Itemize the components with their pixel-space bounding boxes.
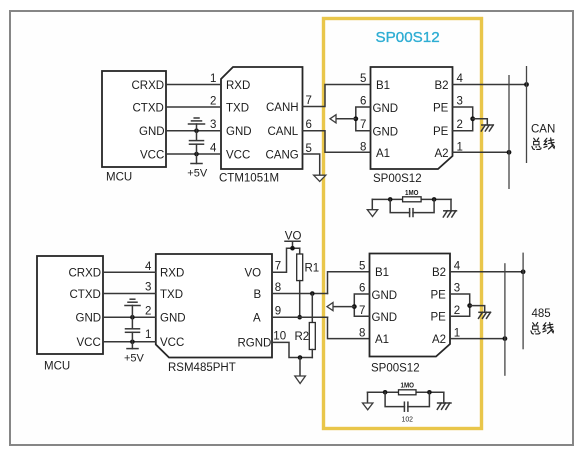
wire A to A1	[328, 317, 370, 338]
svg-text:PE: PE	[433, 102, 449, 114]
node GND bracket junction (bottom)	[352, 304, 357, 309]
+5V supply (bottom)	[124, 342, 145, 365]
wire CANH to B1	[303, 85, 371, 107]
svg-text:5: 5	[306, 143, 312, 155]
svg-text:3: 3	[145, 282, 151, 294]
wire PE3-PE2 bracket (top)	[453, 107, 473, 131]
chassis ground (top terminator)	[443, 199, 456, 217]
svg-text:TXD: TXD	[160, 289, 183, 301]
ground arrow (RGND)	[295, 376, 306, 384]
wire A row	[272, 316, 328, 318]
svg-text:+5V: +5V	[124, 353, 145, 365]
+5V supply (top)	[187, 154, 208, 180]
svg-text:VO: VO	[285, 230, 302, 242]
node R1-A junction	[297, 315, 302, 320]
svg-text:B2: B2	[432, 267, 446, 279]
svg-text:3: 3	[210, 119, 216, 131]
node RGND junction	[298, 355, 303, 360]
svg-text:VCC: VCC	[226, 150, 250, 162]
svg-text:SP00S12: SP00S12	[371, 363, 420, 375]
svg-text:1MO: 1MO	[401, 381, 415, 390]
wire to left arrow (bottom)	[333, 306, 354, 308]
MCU pin labels (bottom)	[69, 268, 102, 349]
wire CANG to ground	[303, 154, 320, 175]
svg-text:4: 4	[210, 143, 217, 155]
isolation barrier IC U: SP00S12 (top)	[371, 67, 453, 185]
svg-text:PE: PE	[431, 289, 447, 301]
svg-text:VCC: VCC	[77, 337, 101, 349]
wire CRXD to RXD	[166, 84, 221, 86]
svg-text:B2: B2	[435, 80, 449, 92]
svg-text:A2: A2	[435, 148, 449, 160]
node PE junction (bottom)	[467, 303, 472, 308]
svg-text:A2: A2	[432, 334, 446, 346]
wire PE3-PE2 bracket (bottom)	[450, 294, 470, 316]
wire PE to chassis ground (top)	[473, 119, 488, 125]
isolation barrier IC U: SP00S12 (bottom)	[370, 254, 451, 375]
CAN bus line 1	[508, 75, 510, 189]
node GND bracket junction (top)	[353, 116, 358, 121]
node A2-bus junction	[507, 150, 512, 155]
terminator resistor 1MO (bottom)	[363, 381, 444, 410]
svg-text:CTXD: CTXD	[70, 289, 101, 301]
terminator capacitor 102 (bottom)	[385, 392, 429, 423]
svg-text:10: 10	[273, 331, 286, 343]
node B2-bus junction (bottom)	[521, 269, 526, 274]
resistor R1	[297, 248, 320, 317]
MCU pin labels (top)	[132, 80, 165, 162]
svg-text:+5V: +5V	[187, 168, 208, 180]
svg-text:GND: GND	[226, 126, 252, 138]
ground arrow (CANG)	[314, 175, 326, 181]
svg-text:4: 4	[454, 261, 461, 273]
RS485 transceiver U: RSM485PHT	[156, 254, 272, 374]
wire VCC row	[166, 153, 221, 155]
terminator resistor 1MO (top)	[367, 188, 451, 217]
resistor R2	[295, 294, 316, 358]
highlight box around SP00S12 region	[324, 19, 482, 429]
485 bus line 1	[504, 263, 506, 376]
wire VO node	[272, 248, 300, 272]
left arrow symbol (top)	[330, 115, 336, 123]
svg-text:A: A	[253, 313, 261, 325]
svg-text:1: 1	[454, 327, 460, 339]
RSM485PHT pin labels	[160, 268, 271, 350]
svg-text:GND: GND	[372, 290, 398, 302]
svg-text:2: 2	[454, 305, 460, 317]
svg-text:SP00S12: SP00S12	[373, 173, 422, 185]
ground symbol above GND row	[189, 118, 205, 131]
node VCC junction (bottom)	[130, 340, 135, 345]
chassis ground (bottom PE)	[479, 312, 491, 318]
svg-text:R2: R2	[295, 331, 310, 343]
SP00S12 bottom pin numbers 4,3,2,1	[454, 261, 461, 340]
node VCC junction	[194, 152, 199, 157]
svg-text:CANG: CANG	[266, 150, 299, 162]
svg-text:RGND: RGND	[238, 337, 272, 349]
wire GND row	[166, 130, 221, 132]
svg-text:7: 7	[359, 305, 365, 317]
net label CAN 总线	[531, 124, 555, 150]
svg-text:2: 2	[210, 96, 216, 108]
svg-text:R1: R1	[305, 263, 320, 275]
net label 485 总线	[531, 308, 554, 334]
svg-text:B1: B1	[375, 267, 389, 279]
capacitor C (decoupling, bottom)	[126, 317, 140, 342]
svg-text:2: 2	[457, 119, 463, 131]
svg-text:VCC: VCC	[160, 337, 184, 349]
svg-text:TXD: TXD	[226, 103, 249, 115]
svg-text:6: 6	[360, 96, 366, 108]
svg-text:GND: GND	[160, 313, 186, 325]
wire CTXD to TXD	[166, 106, 221, 108]
left arrow symbol (bottom)	[327, 303, 333, 311]
node A2-bus junction (bottom)	[503, 336, 508, 341]
svg-text:MCU: MCU	[106, 172, 132, 184]
wire A2 to 485 bus	[450, 338, 505, 340]
svg-text:VO: VO	[245, 268, 262, 280]
SP00S12 top pin numbers 5-8	[360, 73, 366, 153]
SP00S12 top pin numbers 4,3,2,1	[457, 73, 464, 153]
svg-text:8: 8	[360, 141, 366, 153]
svg-text:VCC: VCC	[140, 150, 164, 162]
node GND junction (bottom)	[130, 315, 135, 320]
chassis ground (top PE)	[481, 125, 493, 131]
svg-text:4: 4	[145, 261, 152, 273]
wire CRXD to RXD (bottom)	[103, 271, 156, 273]
net label VO	[285, 230, 302, 242]
svg-text:7: 7	[275, 261, 281, 273]
SP00S12 bottom pin numbers 5-8	[359, 261, 365, 340]
svg-text:GND: GND	[76, 313, 102, 325]
svg-text:GND: GND	[373, 103, 399, 115]
svg-text:CTXD: CTXD	[133, 103, 164, 115]
wire GND row (bottom)	[103, 316, 156, 318]
wire CANL to A1	[303, 131, 371, 153]
RSM485PHT pin numbers 4,3,2,1	[145, 261, 152, 341]
SP00S12 bottom pin labels	[372, 267, 447, 346]
SP00S12 top pin labels	[373, 80, 449, 160]
svg-text:RXD: RXD	[160, 268, 184, 280]
wire CTXD to TXD (bottom)	[103, 293, 156, 295]
MCU block (top)	[102, 71, 166, 184]
svg-text:485: 485	[532, 308, 551, 320]
wire ground stub (RGND)	[299, 358, 301, 377]
svg-text:1: 1	[210, 73, 216, 85]
svg-text:CANH: CANH	[266, 102, 299, 114]
svg-text:CRXD: CRXD	[69, 268, 102, 280]
wire to left arrow (top)	[336, 118, 356, 120]
RSM485PHT pin numbers 7,8,9,10	[273, 261, 286, 343]
svg-text:PE: PE	[433, 126, 449, 138]
svg-text:B1: B1	[376, 80, 390, 92]
svg-text:7: 7	[360, 119, 366, 131]
svg-text:3: 3	[454, 283, 460, 295]
svg-text:B: B	[254, 289, 262, 301]
node GND junction	[194, 128, 199, 133]
wire A2 to CAN bus	[453, 151, 510, 153]
svg-text:RXD: RXD	[226, 80, 250, 92]
svg-text:1: 1	[145, 329, 151, 341]
svg-text:CTM1051M: CTM1051M	[219, 173, 279, 185]
svg-text:5: 5	[359, 261, 365, 273]
svg-text:6: 6	[306, 119, 312, 131]
wire B row	[272, 293, 328, 295]
svg-text:RSM485PHT: RSM485PHT	[168, 362, 236, 374]
CAN bus line 2	[526, 66, 528, 163]
wire B to B1	[328, 272, 370, 294]
CAN transceiver U: CTM1051M	[219, 67, 303, 185]
svg-text:GND: GND	[139, 126, 165, 138]
wire GND6-GND7 bracket (bottom)	[354, 294, 369, 316]
svg-text:4: 4	[457, 73, 464, 85]
capacitor C (decoupling, top)	[190, 131, 204, 154]
svg-text:7: 7	[306, 95, 312, 107]
wire GND6-GND7 bracket (top)	[356, 107, 371, 131]
svg-text:CANL: CANL	[268, 126, 299, 138]
wire PE to chassis ground (bottom)	[470, 306, 485, 313]
node B-R2 junction	[310, 291, 315, 296]
node B2-bus junction	[524, 82, 529, 87]
svg-text:5: 5	[360, 73, 366, 85]
terminator capacitor (top)	[390, 199, 434, 216]
wire B2 to 485 bus	[450, 271, 523, 273]
svg-text:8: 8	[359, 327, 365, 339]
svg-text:2: 2	[145, 306, 151, 318]
svg-text:A1: A1	[376, 148, 390, 160]
svg-text:A1: A1	[375, 334, 389, 346]
wire B2 to CAN bus	[453, 84, 527, 86]
485 bus line 2	[522, 253, 524, 350]
svg-text:MCU: MCU	[44, 361, 70, 373]
CTM1051M pin numbers 7,6,5	[306, 95, 312, 155]
svg-text:CRXD: CRXD	[132, 80, 165, 92]
svg-text:102: 102	[402, 415, 414, 424]
CTM1051M pin labels	[226, 80, 299, 162]
svg-text:PE: PE	[431, 312, 447, 324]
CTM1051M pin numbers 1-4	[210, 73, 217, 155]
ground symbol above GND row (bottom)	[125, 299, 140, 317]
svg-text:1: 1	[457, 141, 463, 153]
svg-text:SP00S12: SP00S12	[376, 29, 440, 46]
svg-text:3: 3	[457, 96, 463, 108]
wire VCC row (bottom)	[103, 341, 156, 343]
svg-text:GND: GND	[372, 312, 398, 324]
wire RGND to ground	[272, 342, 312, 357]
chassis ground (bottom terminator)	[437, 392, 451, 409]
svg-text:6: 6	[359, 283, 365, 295]
node PE junction (top)	[470, 116, 475, 121]
svg-text:GND: GND	[373, 127, 399, 139]
node VO junction	[290, 246, 295, 251]
wire VO label stub	[292, 242, 294, 249]
svg-text:CAN: CAN	[531, 124, 555, 136]
svg-text:1MO: 1MO	[405, 188, 419, 197]
svg-text:8: 8	[275, 282, 281, 294]
svg-text:9: 9	[275, 306, 281, 318]
MCU block (bottom)	[37, 256, 103, 373]
